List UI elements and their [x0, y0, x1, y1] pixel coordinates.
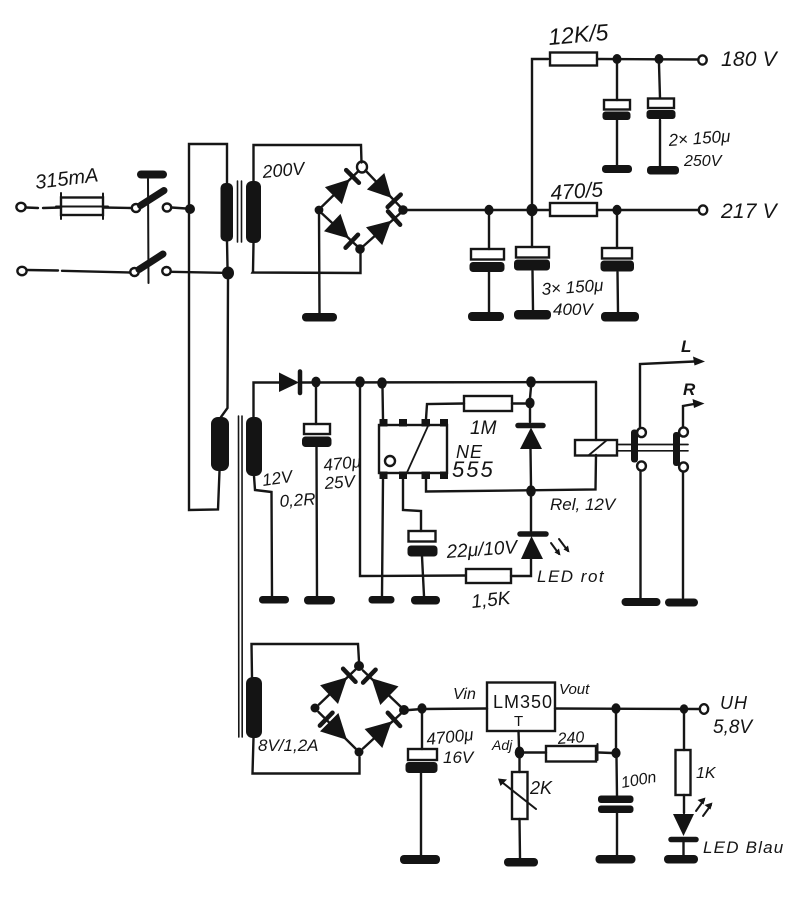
junction node A [185, 204, 195, 214]
input terminal J1 [16, 203, 25, 211]
svg-text:100n: 100n [620, 769, 658, 792]
transformer TR2 8V winding [246, 677, 262, 738]
capacitor C4 wire [532, 216, 533, 310]
capacitor C2 150u wire [659, 64, 660, 166]
svg-text:LM350: LM350 [493, 692, 553, 712]
middle V+ rail [302, 381, 596, 384]
U1 bottom pins [380, 472, 449, 480]
svg-text:400V: 400V [553, 300, 594, 319]
svg-text:LED Blau: LED Blau [703, 838, 784, 857]
bridge B1 left vertex [315, 206, 324, 215]
junction rail dot 3 [612, 205, 621, 215]
capacitor C5 plates [601, 248, 635, 272]
wire J1 to fuse [26, 206, 61, 209]
relay link shaft [617, 445, 688, 451]
wire rail to R6 [683, 714, 685, 751]
resistor R1 12K/5 [550, 53, 597, 66]
wire U2 adj pin [517, 731, 520, 748]
svg-text:470/5: 470/5 [550, 178, 604, 205]
capacitor C6 plates [302, 424, 332, 447]
svg-text:12K/5: 12K/5 [547, 19, 609, 50]
contact circle L bottom [637, 461, 646, 470]
terminal 217V [699, 205, 707, 214]
capacitor C9 100n plates [598, 796, 634, 814]
wire R6 to LED2 [683, 795, 685, 813]
capacitor C8 plates [406, 749, 438, 773]
contact circle L top [637, 428, 646, 437]
svg-text:240: 240 [556, 729, 585, 748]
wire S1b to node [171, 272, 222, 273]
switch S1b pole [130, 254, 170, 276]
wire U1 pin3 to relay [426, 455, 596, 492]
contact circle R bottom [679, 462, 688, 471]
diode D10 bottom-right [365, 713, 401, 748]
U1 inner diagonal [407, 426, 428, 473]
wire R1 to 180V terminal [597, 58, 698, 61]
wire U1 pin2 to C7 [403, 479, 421, 531]
switch S1a pole [132, 191, 171, 213]
svg-text:470μ: 470μ [322, 452, 362, 475]
terminal 180V [698, 55, 706, 64]
svg-text:180 V: 180 V [721, 48, 779, 71]
svg-text:1,5K: 1,5K [470, 588, 512, 613]
ground contact R [665, 599, 698, 607]
junction dot out2 [680, 704, 688, 714]
svg-text:1M: 1M [470, 418, 497, 439]
diode D9 bottom-left [320, 713, 347, 740]
resistor R6 1K [676, 750, 691, 795]
wire L output [640, 362, 694, 429]
svg-text:2× 150μ: 2× 150μ [667, 127, 732, 150]
8V loop wires [252, 644, 360, 774]
capacitor C6 470u wire [316, 387, 317, 596]
branch wire up to 12K rail [532, 59, 548, 205]
transformer TR2 core [239, 416, 243, 737]
diode D5 [279, 372, 300, 394]
capacitor C3 plates [470, 249, 505, 272]
ground C1 [602, 165, 632, 173]
resistor R5 240 [546, 744, 598, 762]
bridge B2 edges [319, 670, 401, 749]
junction dot out1 [611, 703, 620, 713]
primary loop left wire [189, 144, 227, 510]
svg-text:R: R [683, 380, 696, 399]
capacitor C1 plates [603, 100, 631, 120]
wire 12V winding top to diode [254, 383, 280, 418]
potentiometer P1 2K body [512, 772, 528, 819]
capacitor C8 4700u wire [421, 713, 422, 855]
switch link line [147, 179, 150, 283]
output rail [555, 707, 699, 710]
diode D4 bottom-right [366, 211, 400, 245]
terminal UH [700, 704, 708, 714]
fuse F1 315mA [56, 193, 108, 219]
diode D6 [518, 426, 543, 450]
wire D6 to node [529, 449, 532, 486]
junction dot C6 [311, 377, 320, 388]
junction dot rail right [526, 376, 536, 387]
diode D2 top-right [367, 173, 401, 207]
relay K1 coil [575, 440, 617, 456]
ground C3 [468, 312, 504, 321]
wire B2 to LM350 [409, 709, 487, 711]
junction dot adj [515, 747, 525, 759]
ground C2 [647, 166, 679, 175]
wire node to LED1 [530, 496, 532, 531]
ground LED2 [664, 855, 698, 864]
wire R4 to LED1 [511, 558, 531, 576]
diode D8 top-right [363, 670, 398, 705]
wire R output [683, 404, 694, 428]
svg-text:Adj: Adj [491, 737, 513, 753]
svg-text:T: T [514, 713, 523, 730]
junction dot rail mid1 [355, 376, 365, 387]
svg-text:3× 150μ: 3× 150μ [541, 276, 605, 299]
LED2 emission arrows [696, 798, 713, 817]
wire rail to relay top [595, 382, 597, 440]
U1 inner circle [385, 456, 395, 466]
diode D1 top-left [325, 170, 359, 204]
transformer TR1 primary winding [221, 183, 234, 242]
LED1 rot [520, 534, 546, 559]
svg-text:LED rot: LED rot [537, 567, 605, 586]
ground C8 [400, 855, 440, 864]
svg-text:22μ/10V: 22μ/10V [445, 537, 520, 563]
transformer TR1 core [238, 181, 242, 242]
wire C9 to ground [616, 813, 618, 855]
wire adj to R5 [524, 751, 546, 753]
svg-text:250V: 250V [683, 153, 723, 170]
LED2 blau [671, 814, 696, 840]
HT rail 217V [408, 209, 700, 211]
transformer TR2 12V winding [246, 417, 262, 476]
wire R5 to node [599, 751, 612, 754]
wire S1a to node [172, 208, 187, 209]
ground C4 [514, 310, 551, 320]
junction dot 180 rail 2 [655, 54, 664, 64]
bridge B2 top vertex [354, 661, 364, 671]
ground P1 [504, 858, 538, 867]
wire U1 top pin to R3 [426, 404, 464, 420]
junction dot 180 rail 1 [613, 54, 622, 64]
regulator U2 LM350 box [487, 683, 555, 732]
svg-text:25V: 25V [323, 472, 357, 493]
wire P1 to ground [518, 819, 521, 858]
svg-text:L: L [681, 337, 691, 356]
wire rail to U1 pin [381, 388, 384, 419]
svg-text:0,2R: 0,2R [279, 490, 316, 511]
svg-text:8V/1,2A: 8V/1,2A [258, 736, 319, 755]
capacitor C2 plates [647, 99, 676, 120]
junction dot rail mid2 [377, 377, 387, 388]
wire primary to node B to middle primary [221, 241, 228, 417]
transformer TR2 primary winding [211, 417, 229, 471]
svg-text:2K: 2K [529, 778, 553, 798]
bridge B2 right vertex [399, 705, 409, 715]
switch actuator bar [137, 171, 167, 179]
capacitor C4 plates [514, 247, 550, 271]
timer U1 NE555 box [379, 425, 447, 473]
ground under bridge B1 [302, 313, 337, 322]
wire 12V winding bottom to ground [254, 476, 272, 596]
relay contact bar R [673, 432, 680, 466]
arrow L [693, 357, 705, 366]
ground C6 [304, 596, 335, 605]
junction dot relay line [526, 485, 536, 496]
svg-text:5,8V: 5,8V [713, 717, 754, 738]
arrow R [693, 399, 705, 408]
wire LED2 to ground [682, 842, 684, 855]
resistor R3 1M [464, 396, 512, 411]
junction dot Vin [417, 703, 426, 713]
bridge B2 left vertex [311, 704, 320, 713]
ground TR2 12V [259, 596, 289, 604]
wire B1 left vertex to ground [318, 214, 321, 313]
wire J2 to switch S1b [27, 270, 130, 273]
bridge B1 top vertex [357, 162, 367, 173]
svg-text:200V: 200V [261, 158, 308, 182]
diode D3 bottom-left [324, 214, 358, 248]
secondary loop wires [253, 145, 362, 273]
wire contact R to ground [682, 472, 684, 599]
svg-text:315mA: 315mA [34, 164, 100, 194]
P1 arrow [498, 779, 536, 810]
resistor R4 1.5K [466, 569, 511, 583]
wire R3 to node [512, 402, 526, 404]
bridge B2 bottom vertex [355, 748, 364, 757]
input terminal J2 [17, 267, 26, 275]
U1 top pins [380, 419, 449, 427]
junction dot R5 right [611, 748, 620, 758]
ground U1 [369, 596, 395, 604]
junction rail dot 2 [526, 204, 537, 216]
wire rail to 1.5K rail [360, 387, 466, 576]
wire fuse to switch S1a [103, 206, 131, 209]
wire rail down through node to C9 [616, 713, 617, 796]
svg-text:217 V: 217 V [720, 200, 779, 223]
contact circle R top [679, 427, 688, 436]
LED1 emission arrows [551, 539, 570, 556]
svg-text:UH: UH [720, 693, 748, 713]
ground C7 [411, 596, 440, 605]
capacitor C5 wire [617, 215, 618, 312]
svg-text:4700μ: 4700μ [425, 725, 475, 749]
junction dot R3 [525, 398, 534, 409]
junction rail dot 1 [484, 205, 493, 215]
ground contact L [622, 598, 661, 606]
svg-text:16V: 16V [443, 748, 475, 767]
capacitor C7 22u plates [408, 531, 438, 557]
svg-text:Vin: Vin [453, 686, 476, 703]
svg-text:1K: 1K [696, 765, 717, 782]
svg-text:12V: 12V [261, 467, 295, 490]
wire node down diode D6 [530, 387, 531, 422]
bridge B1 right vertex [398, 205, 408, 215]
capacitor C3 wire [488, 215, 490, 312]
ground C5 [601, 312, 639, 322]
svg-text:555: 555 [452, 457, 495, 482]
resistor R2 470/5 [550, 203, 597, 216]
capacitor C1 150u wire [616, 64, 618, 165]
potentiometer P1 2K wire [518, 758, 520, 772]
svg-text:Rel, 12V: Rel, 12V [550, 495, 617, 514]
wire C7 to ground [422, 557, 424, 597]
ground C9 [596, 855, 636, 864]
wire U1 pin1 to ground [382, 479, 383, 596]
bridge B1 bottom vertex [355, 244, 365, 254]
bridge B1 edges [322, 171, 400, 247]
diode D7 top-left [320, 669, 355, 704]
relay contact bar L [631, 430, 638, 463]
junction node B [222, 267, 234, 280]
svg-text:Vout: Vout [559, 681, 590, 698]
transformer TR1 secondary 200V winding [246, 181, 261, 243]
wire contact L to ground [639, 471, 641, 599]
